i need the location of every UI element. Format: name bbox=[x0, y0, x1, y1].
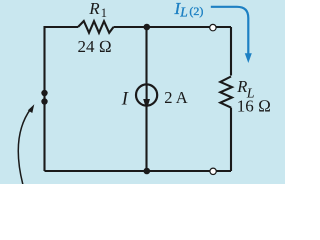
svg-text:I: I bbox=[121, 89, 129, 109]
svg-text:R: R bbox=[88, 0, 100, 18]
svg-text:2 A: 2 A bbox=[164, 88, 187, 107]
svg-text:(2): (2) bbox=[189, 4, 203, 18]
svg-text:16 Ω: 16 Ω bbox=[237, 96, 271, 115]
svg-text:1: 1 bbox=[101, 6, 107, 20]
svg-text:R: R bbox=[236, 77, 247, 96]
svg-text:24 Ω: 24 Ω bbox=[78, 37, 112, 56]
svg-text:L: L bbox=[179, 4, 188, 19]
